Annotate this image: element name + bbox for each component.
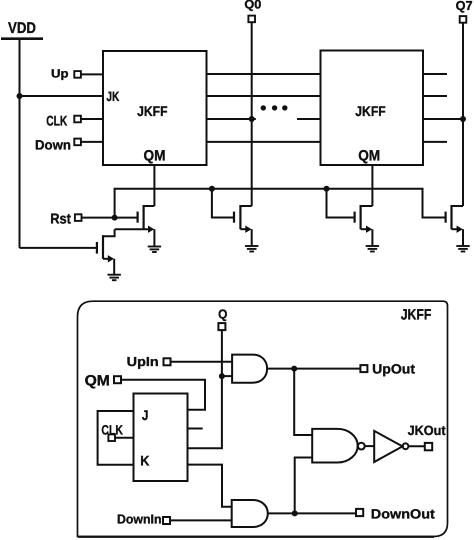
terminal JKOut <box>425 443 432 450</box>
terminal QM <box>114 376 121 383</box>
terminal Up <box>74 71 81 78</box>
wire Q0 vertical <box>251 22 253 206</box>
wire A1 junction to NAND top input <box>294 369 312 435</box>
transistor M2 <box>234 205 252 246</box>
wire Q7 vertical <box>462 23 464 206</box>
svg-text:CLK: CLK <box>46 113 67 129</box>
svg-text:Q0: Q0 <box>244 0 261 11</box>
wire JKOut <box>408 445 424 447</box>
node Q0-W3 junction <box>249 116 255 122</box>
bubble U5 <box>403 443 409 449</box>
svg-text:UpIn: UpIn <box>127 354 159 369</box>
wire U4 to inverter <box>365 445 375 447</box>
VDD rail wire <box>19 39 21 248</box>
ellipsis dots <box>261 105 288 110</box>
svg-text:Down: Down <box>35 137 71 152</box>
wire U2 output stub 1 <box>423 73 447 75</box>
latch stub output <box>188 428 203 430</box>
wire Down input <box>81 141 103 143</box>
svg-text:Q7: Q7 <box>456 0 473 13</box>
ground G1 <box>148 247 161 253</box>
wire U2 output stub 4 <box>423 141 447 143</box>
node Rst junction <box>112 215 118 221</box>
node A1 output junction <box>291 366 297 372</box>
terminal UpIn <box>164 358 171 365</box>
and gate A1 <box>232 355 267 383</box>
and gate A2 <box>232 500 268 527</box>
wire M3 gate drop <box>327 189 355 218</box>
wire chain W4 (Down) <box>207 141 321 143</box>
wire VDD to M0 gate <box>20 247 97 249</box>
wire UpIn <box>171 361 233 363</box>
wire Q vertical <box>188 330 222 448</box>
transistor M4 <box>446 205 463 246</box>
terminal Q0 <box>248 16 255 23</box>
transistor M0 <box>97 229 115 275</box>
wire Rst input <box>82 217 138 219</box>
svg-text:K: K <box>140 453 149 469</box>
svg-text:Q: Q <box>218 307 227 322</box>
svg-text:DownIn: DownIn <box>117 511 162 526</box>
terminal Q <box>218 323 225 330</box>
inverter U5 <box>374 431 402 462</box>
wire latch K row to A2 <box>188 465 232 507</box>
wire reset bus <box>115 189 446 218</box>
wire chain W3 left segment <box>207 118 256 120</box>
svg-text:DownOut: DownOut <box>371 506 436 521</box>
terminal CLK <box>74 116 81 123</box>
terminal Down <box>74 139 81 146</box>
node A2 output junction <box>292 510 298 516</box>
wire chain W1 (Up) <box>207 73 321 75</box>
wire A2 output to DownOut <box>268 512 357 514</box>
node bus-M2 gate <box>209 186 215 192</box>
wire QM2 vertical <box>371 165 373 206</box>
ground G2 <box>245 246 258 252</box>
node Q7-W3 junction <box>460 116 466 122</box>
wire chain W3 right segment <box>297 118 321 120</box>
wire M2 gate drop <box>212 189 234 218</box>
wire Up input <box>81 73 103 75</box>
svg-text:JK: JK <box>106 89 119 104</box>
flip-flop U2 JKFF (last stage) <box>321 51 424 166</box>
wire DownIn <box>170 519 232 521</box>
flip-flop U1 JKFF (first stage) <box>103 51 207 165</box>
ground G3 <box>366 246 379 252</box>
node Q to AND A1 <box>219 373 225 379</box>
wire QM to latch J <box>121 380 205 410</box>
VDD rail bar <box>1 37 43 40</box>
wire CLK input <box>81 118 103 120</box>
latch U3 <box>134 394 188 482</box>
wire CLK to latch <box>115 437 134 439</box>
terminal Rst <box>75 214 82 221</box>
svg-text:Rst: Rst <box>50 211 71 227</box>
wire A1 output to UpOut <box>267 368 360 370</box>
svg-text:JKFF: JKFF <box>401 306 432 323</box>
terminal DownIn <box>163 517 170 524</box>
wire chain W2 (JK) <box>207 95 321 97</box>
ground G0 <box>108 275 121 281</box>
terminal UpOut <box>360 365 367 372</box>
wire U2 output stub 2 <box>423 95 447 97</box>
wire A2 junction to NAND bottom input <box>295 458 313 514</box>
bubble U4 <box>358 443 365 450</box>
svg-text:QM: QM <box>85 373 110 390</box>
wire QM1 vertical <box>153 165 155 206</box>
terminal Q7 <box>460 16 467 23</box>
wire VDD rail to JK input <box>20 95 104 97</box>
svg-text:QM: QM <box>358 148 380 165</box>
transistor M1 <box>115 205 155 247</box>
svg-text:UpOut: UpOut <box>372 362 416 377</box>
svg-text:Up: Up <box>51 66 69 80</box>
node VDD-JK junction <box>17 93 23 99</box>
svg-text:JKFF: JKFF <box>137 103 168 119</box>
JKFF internal detail box <box>78 301 448 536</box>
svg-text:J: J <box>142 407 149 423</box>
svg-text:JKFF: JKFF <box>355 103 386 119</box>
transistor M3 <box>355 205 373 246</box>
svg-text:JKOut: JKOut <box>408 423 446 438</box>
terminal CLK detail <box>108 434 115 441</box>
ground G4 <box>456 246 469 252</box>
node bus-M3 gate <box>324 186 330 192</box>
nand gate U4 <box>312 429 358 463</box>
svg-text:VDD: VDD <box>8 20 36 37</box>
wire U2 output stub 3 to Q7 <box>423 118 463 120</box>
terminal DownOut <box>356 509 363 516</box>
svg-text:QM: QM <box>144 148 166 165</box>
wire JK tie loop <box>98 411 134 465</box>
wire Q to A1 input <box>222 375 232 377</box>
